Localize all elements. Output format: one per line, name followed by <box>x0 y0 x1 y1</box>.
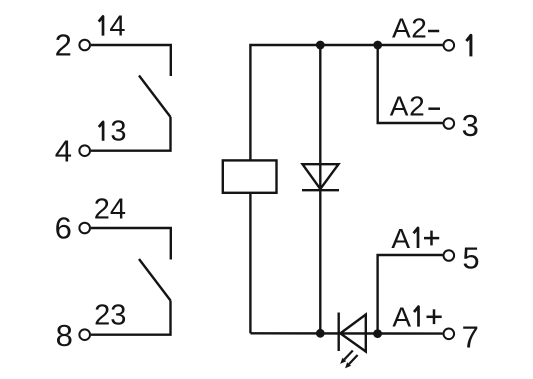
wire <box>91 228 171 260</box>
svg-text:2: 2 <box>411 13 427 44</box>
svg-text:A: A <box>390 91 409 122</box>
svg-text:7: 7 <box>462 319 479 354</box>
terminal 1 <box>444 40 455 51</box>
contact label 24 <box>94 193 126 225</box>
terminal 5 <box>444 250 455 261</box>
pin label 7 <box>462 319 479 354</box>
pin label 5 <box>462 240 479 275</box>
svg-text:24: 24 <box>94 193 126 225</box>
wire <box>250 45 442 161</box>
pin label 3 <box>462 108 479 143</box>
wire <box>378 255 443 334</box>
svg-text:23: 23 <box>94 300 126 332</box>
node junction bottom right <box>373 329 382 338</box>
terminal 8 <box>79 329 90 340</box>
node junction bottom left <box>316 329 325 338</box>
LED D2 <box>339 313 366 369</box>
terminal 3 <box>444 118 455 129</box>
svg-text:2: 2 <box>409 91 425 122</box>
svg-text:3: 3 <box>462 108 479 143</box>
wire <box>378 45 443 123</box>
terminal 7 <box>444 329 455 340</box>
svg-text:A: A <box>391 223 410 254</box>
diode D1 <box>302 164 339 190</box>
net label A2- <box>390 91 440 122</box>
terminal 6 <box>79 223 90 234</box>
svg-text:3: 3 <box>110 116 126 148</box>
node junction top branch <box>373 41 382 50</box>
svg-text:6: 6 <box>55 210 72 245</box>
svg-text:4: 4 <box>55 134 72 169</box>
contact 14 blade <box>139 76 171 118</box>
relay coil K1 <box>223 160 277 192</box>
wire <box>91 45 171 76</box>
svg-text:8: 8 <box>56 318 73 353</box>
net label A2- <box>392 13 439 44</box>
contact label 14 <box>99 10 126 42</box>
svg-text:2: 2 <box>55 28 72 63</box>
wire <box>91 117 171 151</box>
contact label 13 <box>99 116 127 148</box>
net label A1+ <box>392 302 441 333</box>
svg-text:A: A <box>392 302 411 333</box>
net label A1+ <box>391 223 439 254</box>
wire <box>249 193 251 333</box>
pin label 8 <box>56 318 73 353</box>
contact label 23 <box>94 300 126 332</box>
pin label 1 <box>466 35 471 56</box>
pin label 4 <box>55 134 72 169</box>
terminal 4 <box>79 145 90 156</box>
contact 24 blade <box>139 259 171 301</box>
wire <box>250 332 442 335</box>
svg-text:5: 5 <box>462 240 479 275</box>
wire <box>91 301 171 335</box>
svg-text:A: A <box>392 13 411 44</box>
terminal 2 <box>79 40 90 51</box>
pin label 2 <box>55 28 72 63</box>
pin label 6 <box>55 210 72 245</box>
svg-text:4: 4 <box>109 10 125 42</box>
node junction top diode <box>316 41 325 50</box>
wire <box>319 45 321 333</box>
